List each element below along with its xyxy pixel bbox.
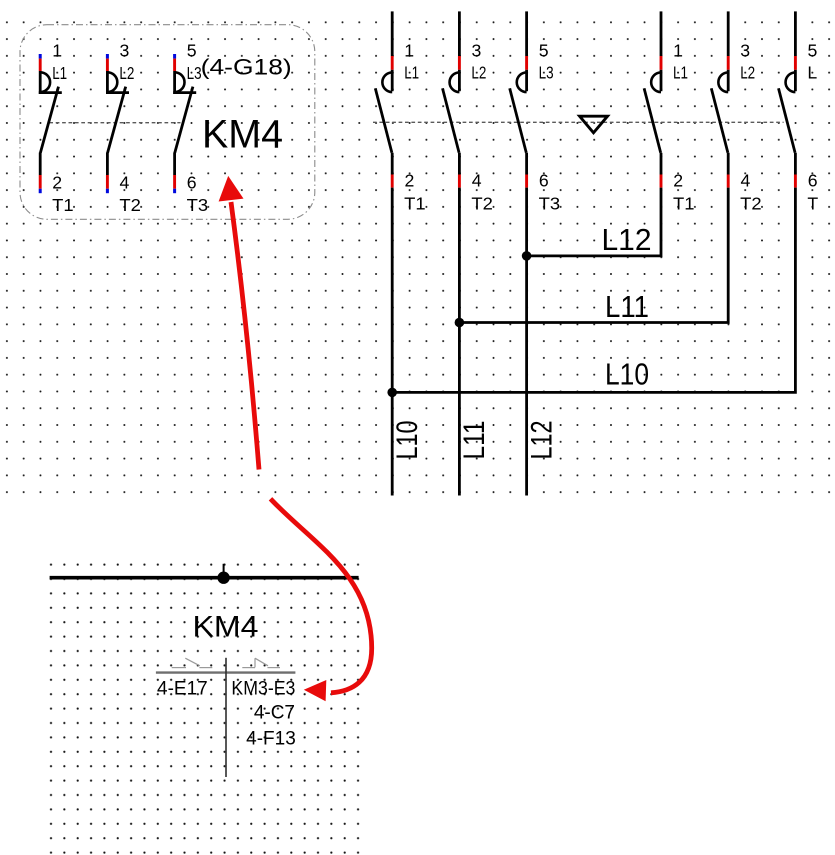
junction on net L11 [455,318,465,328]
svg-text:T2: T2 [471,194,493,214]
svg-text:4-E17: 4-E17 [157,678,208,699]
contactor KM4 pole 2 [106,54,129,193]
junction on net L10 [387,388,397,398]
svg-text:2: 2 [673,170,683,190]
wire pole3 down (net L12 drop) [525,188,528,496]
svg-text:6: 6 [808,170,818,190]
svg-text:T3: T3 [187,195,209,215]
mechanical linkage dashed line (right contactors) [373,121,784,123]
wire pole1 down (net L10 drop) [391,188,394,496]
svg-text:1: 1 [52,40,62,60]
svg-text:KM3-E3: KM3-E3 [231,678,295,699]
svg-text:5: 5 [539,41,549,61]
cross-ref NO contact icon left [172,658,213,667]
svg-text:L3: L3 [539,63,554,83]
svg-text:3: 3 [472,41,482,61]
svg-text:T1: T1 [52,195,73,215]
svg-text:L1: L1 [673,63,688,83]
svg-text:4: 4 [120,173,130,193]
svg-text:L2: L2 [471,63,486,83]
red arrow to KM4 contactor [219,176,259,470]
svg-text:6: 6 [187,173,197,193]
wire pole2 down (net L11 drop) [458,188,461,496]
coil supply wire [50,576,359,580]
cross-ref NO contact icon right [242,658,280,667]
svg-text:1: 1 [404,41,414,61]
svg-text:T2: T2 [119,195,140,215]
red arrow to cross-ref KM3-E3 [271,499,372,702]
svg-text:T1: T1 [673,194,695,214]
svg-text:L12: L12 [526,421,559,460]
svg-text:T3: T3 [539,194,561,214]
svg-text:L1: L1 [52,63,67,83]
svg-text:1: 1 [673,41,683,61]
svg-text:L11: L11 [605,290,649,324]
contactor pole 5 [711,11,728,187]
svg-text:4: 4 [472,170,482,190]
svg-text:L2: L2 [740,63,755,83]
contactor KM4 pole 3 [173,54,196,193]
contactor pole 1 [375,11,392,187]
svg-text:5: 5 [187,40,197,60]
KM4 mechanical linkage dashed line [49,122,180,124]
contactor pole 4 [644,11,661,187]
svg-text:L: L [807,63,817,83]
wire net L11 (pole5 to pole2) [459,188,728,323]
svg-text:L1: L1 [404,63,419,83]
svg-text:6: 6 [539,170,549,190]
svg-text:L12: L12 [602,223,652,257]
svg-text:L2: L2 [119,63,134,83]
svg-text:5: 5 [808,41,818,61]
svg-text:4: 4 [741,170,751,190]
contactor pole 6 [779,11,796,187]
svg-text:3: 3 [120,40,130,60]
junction stub [223,564,225,578]
contactor KM4 pole 1 [39,54,62,193]
delta linkage triangle marker [580,116,608,133]
cross-ref separator bar [156,671,296,673]
svg-text:KM4: KM4 [202,112,283,156]
svg-text:T2: T2 [740,194,762,214]
svg-text:(4-G18): (4-G18) [201,54,292,79]
cross-ref column divider [225,658,227,777]
svg-text:2: 2 [52,173,62,193]
svg-text:L11: L11 [458,421,491,460]
contactor pole 2 [443,11,460,187]
svg-text:L3: L3 [187,63,202,83]
contactor pole 3 [510,11,527,187]
svg-text:T1: T1 [404,194,426,214]
svg-text:4-F13: 4-F13 [246,728,296,749]
svg-text:KM4: KM4 [193,611,259,644]
svg-text:T: T [807,194,818,214]
contactor KM4 outline box [20,25,315,220]
svg-text:L10: L10 [391,421,424,460]
wire net L12 (pole4 to pole3) [527,188,661,256]
svg-text:3: 3 [740,41,750,61]
wire net L10 (pole6 to pole1) [392,188,795,393]
svg-text:L10: L10 [605,358,649,392]
junction on net L12 [522,251,532,261]
svg-text:2: 2 [405,170,415,190]
junction dot [217,572,229,584]
svg-text:4-C7: 4-C7 [254,703,295,724]
